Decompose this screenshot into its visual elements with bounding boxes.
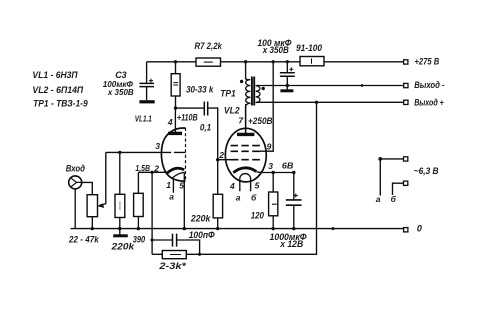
resistor 30-33k power marks bbox=[173, 83, 178, 85]
svg-text:30-33 k: 30-33 k bbox=[186, 84, 214, 94]
wire pot bottom lead bbox=[91, 217, 93, 229]
wire 6.3V b bbox=[393, 183, 404, 195]
wire anode VL1.1 lead bbox=[174, 108, 176, 132]
terminal 6.3V a bbox=[404, 157, 408, 161]
wire 220k bottom to 0 rail bbox=[217, 218, 219, 229]
wire 2-3k to output plus bbox=[186, 102, 317, 254]
tube VL2 envelope bbox=[225, 128, 266, 182]
svg-text:ТР1 - ТВЗ-1-9: ТР1 - ТВЗ-1-9 bbox=[33, 99, 88, 109]
resistor 120 body bbox=[269, 192, 278, 216]
svg-text:~6,3 В: ~6,3 В bbox=[414, 166, 439, 176]
node 220k bottom dot bbox=[216, 227, 219, 230]
svg-text:100пФ: 100пФ bbox=[189, 230, 215, 240]
svg-text:390: 390 bbox=[133, 234, 145, 244]
ground below 220k bbox=[113, 234, 128, 237]
svg-text:VL1.1: VL1.1 bbox=[135, 115, 152, 124]
svg-text:VL2 - 6П14П: VL2 - 6П14П bbox=[32, 85, 83, 95]
svg-text:Вход: Вход bbox=[66, 164, 86, 174]
node 6.3V corner dot bbox=[378, 157, 382, 161]
capacitor C3 polarity plus bbox=[149, 79, 153, 83]
node 1000uF rail dot bbox=[292, 227, 295, 230]
svg-text:1,5В: 1,5В bbox=[135, 164, 150, 173]
potentiometer wiper arrow bbox=[97, 203, 104, 208]
svg-text:х 12В: х 12В bbox=[279, 239, 303, 249]
svg-text:220k: 220k bbox=[190, 213, 211, 223]
svg-text:0: 0 bbox=[417, 223, 422, 233]
wire cathode VL1.1 bbox=[138, 171, 166, 173]
tube VL1.1 envelope arc bbox=[161, 128, 185, 181]
svg-text:х 350В: х 350В bbox=[107, 87, 134, 97]
node 220k rail dot bbox=[118, 227, 121, 230]
resistor 390 body bbox=[134, 193, 144, 216]
svg-text:2: 2 bbox=[218, 150, 224, 160]
svg-text:91-100: 91-100 bbox=[296, 43, 322, 53]
node small dot on minus rail bbox=[361, 84, 364, 87]
capacitor 100uF plates bbox=[280, 73, 295, 76]
svg-text:3: 3 bbox=[155, 141, 160, 151]
node +110V dot bbox=[174, 106, 177, 109]
svg-text:0,1: 0,1 bbox=[200, 122, 211, 132]
capacitor 1000uF plates bbox=[286, 200, 302, 205]
svg-text:б: б bbox=[251, 193, 257, 203]
heater VL1.1 curve bbox=[172, 172, 184, 178]
capacitor C3 plates bbox=[139, 83, 154, 86]
wire input shield down bbox=[74, 189, 76, 229]
terminal +275V bbox=[404, 60, 408, 64]
node feedback top dot bbox=[315, 101, 318, 104]
node B+ left corner to C3 bbox=[146, 62, 148, 83]
terminal Vyhod minus bbox=[404, 83, 408, 87]
grid VL2 g1 row bbox=[231, 159, 260, 161]
svg-text:б: б bbox=[391, 194, 397, 204]
node primary rail dot bbox=[244, 60, 247, 63]
svg-text:+110В: +110В bbox=[177, 112, 198, 122]
wire B+ top rail bbox=[147, 61, 404, 63]
transformer TP1 primary bottom lead bbox=[246, 103, 251, 134]
svg-text:+275 В: +275 В bbox=[415, 56, 440, 66]
svg-text:х 350В: х 350В bbox=[262, 45, 289, 55]
svg-text:5: 5 bbox=[179, 180, 184, 190]
wire 390 bottom lead bbox=[137, 217, 139, 229]
wire 30-33k top lead bbox=[175, 62, 177, 74]
transformer TP1 phase dot primary bbox=[240, 80, 243, 83]
transformer TP1 phase dot secondary bbox=[262, 87, 265, 90]
terminal 6.3V b bbox=[404, 181, 408, 185]
svg-text:5: 5 bbox=[255, 180, 260, 190]
wire 220k bottom lead bbox=[119, 218, 121, 235]
wire 100uF bottom lead bbox=[286, 76, 288, 85]
resistor 2-3k body bbox=[162, 251, 186, 259]
wire 220k top lead bbox=[119, 152, 121, 194]
transformer TP1 core bbox=[252, 77, 254, 106]
resistor 220k VL2 grid body bbox=[213, 194, 222, 218]
capacitor 1000uF plus bbox=[294, 194, 298, 198]
svg-text:VL1 - 6Н3П: VL1 - 6Н3П bbox=[32, 70, 78, 80]
svg-text:220k: 220k bbox=[110, 241, 135, 251]
svg-text:4: 4 bbox=[167, 117, 173, 127]
heater VL2 arch bbox=[240, 174, 251, 192]
anode VL2 bar bbox=[237, 133, 254, 136]
resistor R7 body bbox=[196, 58, 221, 66]
svg-text:а: а bbox=[169, 192, 174, 202]
wire 0 rail bbox=[71, 228, 404, 230]
node screen rail dot bbox=[272, 60, 275, 63]
svg-text:VL2: VL2 bbox=[224, 105, 240, 115]
resistor R7 power mark bbox=[204, 61, 213, 63]
ground below C3 bbox=[139, 100, 154, 103]
wire 1000uF bottom lead bbox=[293, 205, 295, 228]
node rail stray dot bbox=[332, 227, 335, 230]
node 100uF out minus dot bbox=[286, 84, 289, 87]
potentiometer 22-47k body bbox=[87, 195, 97, 217]
svg-text:9: 9 bbox=[267, 142, 272, 152]
connector input arrow bbox=[71, 178, 81, 186]
node 390 rail dot bbox=[137, 227, 140, 230]
transformer TP1 secondary winding bbox=[256, 86, 260, 103]
wire grid node down to 220k bbox=[217, 160, 219, 195]
wire screen g2 to rail bbox=[260, 62, 273, 151]
cathode VL1.1 arc bbox=[167, 168, 184, 173]
svg-text:+250В: +250В bbox=[248, 116, 273, 126]
wire coupling from +110V node bbox=[176, 107, 205, 109]
svg-text:2: 2 bbox=[153, 163, 159, 173]
wire 100pF branch bbox=[152, 239, 172, 241]
wire cathode VL2 out bbox=[257, 171, 294, 174]
resistor 220k input body bbox=[115, 194, 125, 217]
svg-text:R7 2,2k: R7 2,2k bbox=[195, 41, 223, 51]
resistor 91-100 body bbox=[300, 57, 324, 66]
svg-text:120: 120 bbox=[251, 211, 264, 221]
wire coupling cap to VL2 grid bbox=[208, 108, 218, 160]
wire Vyhod plus rail bbox=[256, 101, 404, 103]
wire feedback vertical bbox=[151, 172, 153, 254]
node 100pF right dot bbox=[198, 253, 201, 256]
wire VL1.1 pin5 lead to rail bbox=[183, 172, 185, 228]
node 30-33k top dot bbox=[174, 60, 177, 63]
terminal Vyhod plus bbox=[404, 100, 408, 104]
svg-text:а: а bbox=[376, 194, 381, 204]
wire 1000uF top lead bbox=[293, 173, 295, 200]
wire 120 bottom lead bbox=[272, 216, 274, 229]
resistor 30-33k body bbox=[171, 74, 180, 96]
node 120 rail dot bbox=[272, 227, 275, 230]
grid VL2 g2 row bbox=[231, 150, 260, 152]
connector input circle bbox=[69, 176, 82, 189]
node VL2 grid dot bbox=[216, 158, 219, 161]
svg-text:Выход +: Выход + bbox=[414, 97, 444, 107]
anode VL1.1 bar bbox=[168, 132, 182, 135]
wire feedback to 2-3k bbox=[152, 253, 162, 255]
transformer TP1 primary lead top bbox=[245, 62, 247, 80]
wire 6.3V a bbox=[380, 159, 403, 196]
svg-text:Выход -: Выход - bbox=[414, 80, 444, 90]
wire C3 to ground bbox=[146, 87, 148, 101]
wire VL1.1 pin1 stub bbox=[172, 178, 174, 193]
wire Vyhod minus rail bbox=[256, 85, 404, 87]
svg-text:6В: 6В bbox=[282, 160, 294, 170]
wire 30-33k bottom lead to +110V node bbox=[175, 96, 177, 108]
capacitor 100pF plates bbox=[173, 234, 177, 247]
node 100uF rail dot bbox=[286, 60, 289, 63]
cathode VL2 arc bbox=[233, 168, 256, 173]
svg-text:22 - 47k: 22 - 47k bbox=[68, 235, 99, 245]
resistor 91-100 power mark bbox=[311, 59, 313, 64]
resistor 2-3k power mark bbox=[170, 254, 181, 256]
grid VL2 g3 row bbox=[231, 145, 260, 147]
terminal 0 bbox=[404, 228, 408, 232]
svg-text:1: 1 bbox=[166, 180, 171, 190]
node pin5 rail dot bbox=[183, 227, 186, 230]
wire anode VL2 lead bbox=[245, 104, 247, 134]
wire grid node to VL2 bbox=[218, 159, 239, 161]
node pot bottom dot bbox=[91, 227, 94, 230]
svg-text:2-3k*: 2-3k* bbox=[158, 261, 186, 271]
ground below output minus bbox=[280, 89, 293, 92]
wire 120 top lead bbox=[272, 173, 274, 193]
wire wiper riser bbox=[99, 152, 106, 205]
node feedback T dot bbox=[151, 238, 154, 241]
capacitor 0,1 plates bbox=[204, 102, 207, 116]
wire stub to ground bbox=[286, 86, 288, 90]
svg-text:ТР1: ТР1 bbox=[220, 89, 236, 99]
resistor 120 power mark bbox=[272, 203, 277, 205]
wire VL1.1 grid bbox=[106, 151, 186, 153]
node cathode 120 dot bbox=[272, 171, 275, 174]
capacitor 100uF plus bbox=[289, 67, 293, 71]
svg-text:4: 4 bbox=[229, 181, 235, 191]
svg-text:3: 3 bbox=[268, 161, 273, 171]
tube VL1.1 envelope dashed side bbox=[185, 128, 187, 182]
resistor 220k power mark bbox=[119, 201, 121, 210]
wire 390 top lead bbox=[137, 172, 139, 193]
node cathode cap dot bbox=[292, 171, 295, 174]
capacitor 100uF top lead bbox=[286, 62, 288, 73]
wire 100pF right to resistor node bbox=[177, 240, 200, 254]
node cathode feedback dot bbox=[150, 171, 153, 174]
wire input to pot top bbox=[82, 182, 93, 194]
transformer TP1 primary winding bbox=[246, 78, 251, 103]
node grid/220k dot bbox=[118, 151, 121, 154]
svg-text:а: а bbox=[236, 193, 241, 203]
